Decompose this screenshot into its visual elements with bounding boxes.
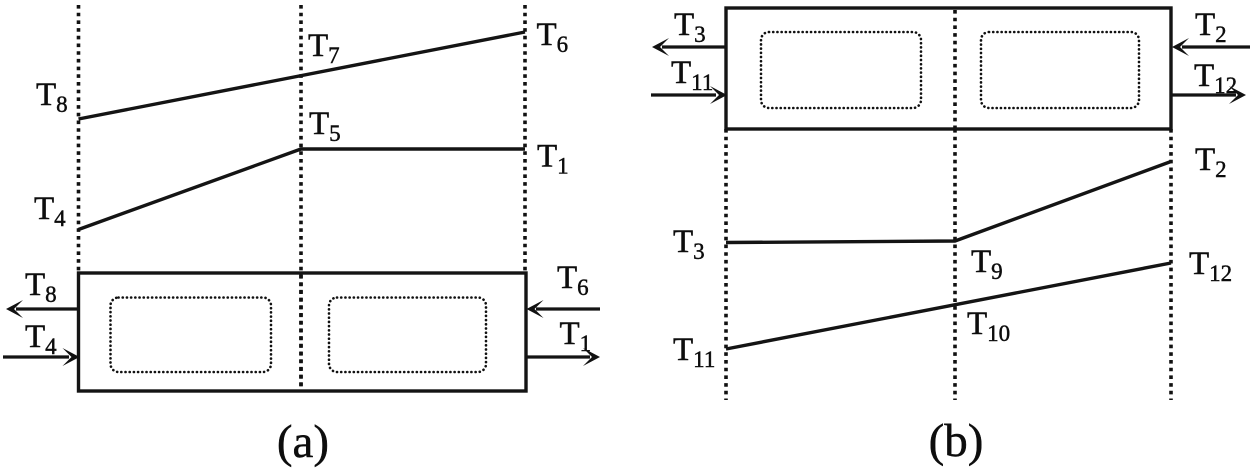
dotted vertical divider inside exchanger (a) <box>299 275 303 390</box>
dotted tube bundle right (b) <box>981 32 1139 108</box>
arrow T12 outlet (b) <box>1171 93 1236 96</box>
dotted tube bundle right (a) <box>329 298 486 373</box>
dotted axis line right (a) <box>523 5 527 272</box>
hot stream temperature line T8-T7-T6 (a) <box>79 32 526 119</box>
heat exchanger body (a) <box>79 273 527 391</box>
dotted axis line right (b) <box>1169 129 1173 400</box>
arrow T2 inlet (b) <box>1182 45 1250 48</box>
dotted tube bundle left (a) <box>111 298 272 373</box>
arrow T3 outlet (b) <box>662 45 726 48</box>
dotted axis line middle (b) <box>953 129 957 400</box>
arrow T1 outlet (a) <box>526 355 590 358</box>
dotted tube bundle left (b) <box>761 32 921 108</box>
svg-text:(a): (a) <box>277 416 329 468</box>
svg-text:(b): (b) <box>929 415 984 467</box>
dotted axis line middle (a) <box>299 5 303 390</box>
temperature line T3-T9-T2 (b) <box>726 162 1171 243</box>
arrow T8 outlet (a) <box>16 307 80 310</box>
arrow T6 inlet (a) <box>536 307 600 310</box>
arrow T4 inlet (a) <box>3 355 69 358</box>
temperature line T11-T10-T12 (b) <box>726 263 1171 349</box>
heat exchanger body (b) <box>726 8 1171 129</box>
dotted vertical divider inside exchanger (b) <box>953 10 957 128</box>
arrow T11 inlet (b) <box>651 93 716 96</box>
dotted axis line left (b) <box>724 129 728 400</box>
dotted axis line left (a) <box>77 5 81 272</box>
cold stream temperature line T4-T5-T1 (a) <box>79 149 526 230</box>
